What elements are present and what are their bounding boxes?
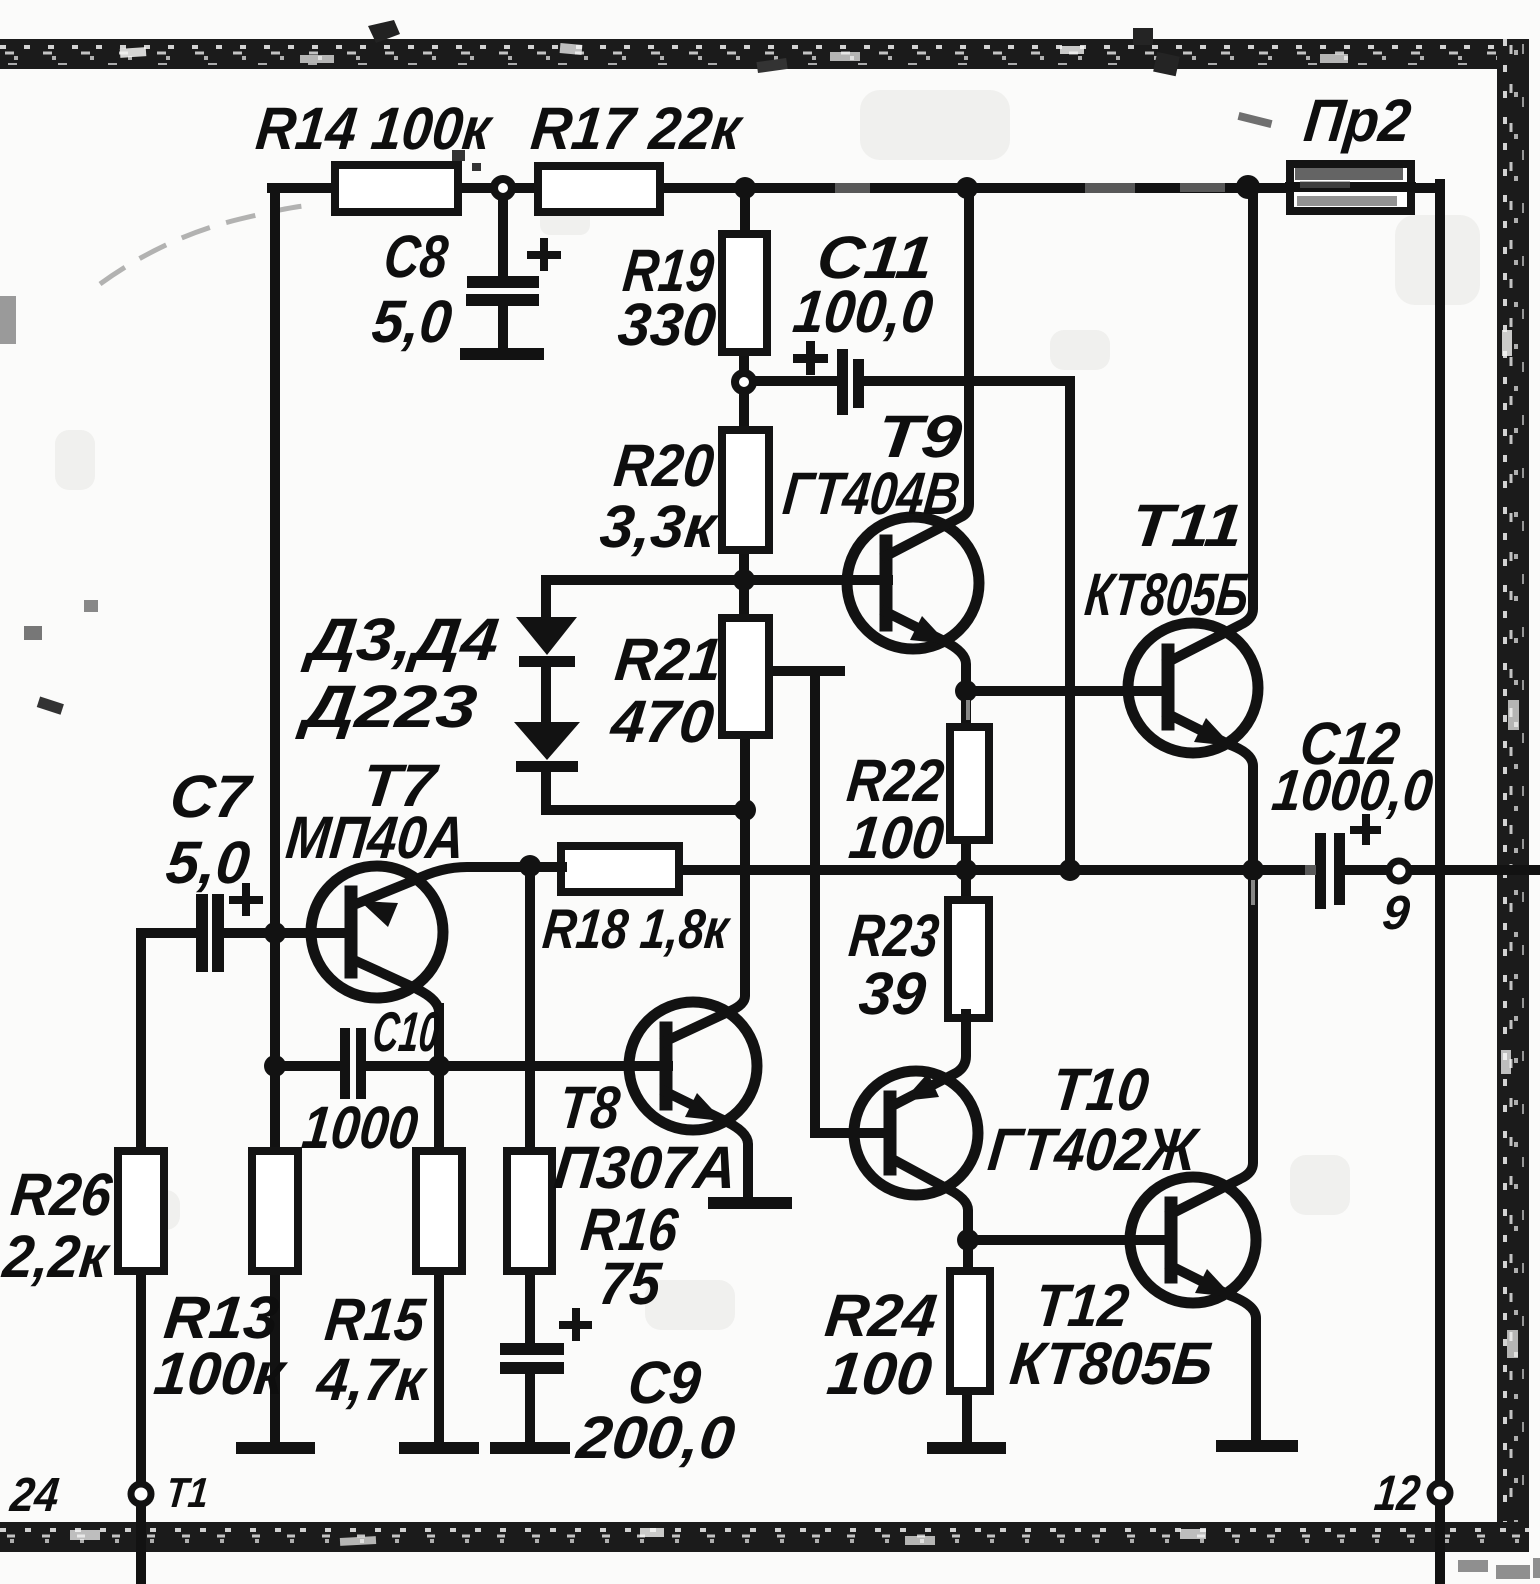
stray pencil curve top-left (100, 206, 316, 285)
transistor T11 KT805B (1128, 186, 1258, 872)
wire: T9 base node down to R21 top (739, 580, 749, 620)
capacitor C10 plates (340, 1028, 366, 1099)
wire: C11 corner down to output rail (1065, 381, 1075, 868)
junction node T7 base / C7 / feedback line (264, 922, 286, 944)
chassis bar under R13 (242, 1442, 309, 1454)
svg-text:39: 39 (856, 960, 930, 1027)
svg-text:Пр2: Пр2 (1301, 87, 1414, 154)
junction node T11 emitter / T12 collector on rail (1242, 859, 1264, 881)
svg-text:R14 100к: R14 100к (253, 95, 496, 162)
svg-text:100к: 100к (151, 1340, 291, 1407)
C8 polarity plus (527, 238, 561, 271)
resistor R20 3.3k body (722, 430, 769, 550)
wire: tap vertical down to T10 base line (810, 671, 820, 1133)
svg-text:100: 100 (846, 804, 947, 871)
junction node R14/R17/C8 (ring) (494, 179, 512, 197)
svg-text:C7: C7 (167, 763, 256, 830)
junction node T9 emitter / T11 base / R22 (955, 680, 977, 702)
wire: R19 bottom to ring node (739, 350, 749, 372)
border frame top bar (0, 39, 1529, 69)
capacitor C11 plates (837, 349, 864, 415)
svg-text:ГТ402Ж: ГТ402Ж (985, 1116, 1203, 1183)
svg-text:КТ805Б: КТ805Б (1007, 1330, 1216, 1397)
transistor T10 GT402Zh (854, 1014, 978, 1242)
svg-text:330: 330 (615, 291, 719, 358)
svg-text:24: 24 (7, 1468, 62, 1522)
resistor R24 100 body (950, 1271, 990, 1391)
wire: output rail C12 to terminal 9 (1347, 865, 1390, 875)
border frame bottom bar (0, 1522, 1529, 1552)
resistor R18 1.8k body (561, 846, 679, 892)
wire: between diodes D3 and D4 (541, 665, 551, 724)
wire: diode chain bottom to R21 bottom node (546, 805, 745, 815)
junction ring node R19/R20/C11 (735, 373, 753, 391)
transistor T7 MP40A (311, 866, 562, 1068)
transistor T12 KT805B (1130, 868, 1256, 1438)
wire: R24 bottom to chassis stub (962, 1389, 972, 1442)
wire: R21 wiper tap horizontal (768, 666, 840, 676)
wire: R13 bottom to chassis stub (270, 1269, 280, 1442)
svg-text:3,3к: 3,3к (597, 493, 722, 560)
chassis bar under T12 emitter (1222, 1440, 1292, 1452)
wire: T12 base line from T10 collector node (968, 1235, 1171, 1245)
wire: R22 top stub from T9 emitter node (961, 691, 971, 729)
svg-text:C8: C8 (381, 223, 451, 290)
wire: C7 left corner down to R26 (136, 933, 146, 1152)
svg-text:R23: R23 (846, 902, 942, 969)
svg-text:R24: R24 (822, 1282, 940, 1349)
transistor T8 P307A (629, 872, 757, 1199)
junction node R18 left / T7 emitter / R16 line (519, 855, 541, 877)
junction node R19 top (734, 177, 756, 199)
resistor R14 100k body (335, 165, 458, 212)
resistor R26 2.2k body (118, 1151, 164, 1271)
wire: R26 bottom to terminal T1 (136, 1269, 146, 1484)
scan fade on wires (300, 187, 1316, 870)
resistor R16 75 body (507, 1151, 552, 1271)
resistor R21 470 body (722, 618, 769, 735)
junction node T9 base / R20 / R21 / diodes (733, 569, 755, 591)
wire: R15 bottom to chassis stub (434, 1269, 444, 1442)
resistor R17 22k body (538, 166, 660, 212)
svg-text:1000,0: 1000,0 (1269, 758, 1436, 823)
light scan smudges (55, 90, 1480, 1330)
svg-text:Т12: Т12 (1032, 1272, 1132, 1339)
svg-text:Д223: Д223 (294, 673, 480, 740)
svg-text:R15: R15 (322, 1286, 429, 1353)
wire: C10 right lead / T8 base line (366, 1061, 668, 1071)
stray grey dash near fuse label (1238, 112, 1273, 128)
svg-text:1000: 1000 (299, 1094, 421, 1161)
svg-text:R17 22к: R17 22к (528, 95, 746, 162)
wire: T9 base node to diode chain (left) (546, 575, 744, 585)
svg-text:Т1: Т1 (164, 1469, 211, 1516)
wire: R20 bottom to T9 base node (739, 548, 749, 584)
wire: top supply rail from left corner to fuse corner (272, 183, 1437, 193)
C12 polarity plus (1350, 814, 1381, 845)
junction node R22/R23 on output rail (955, 859, 977, 881)
junction node C11 on output rail (1059, 859, 1081, 881)
capacitor C9 plates (500, 1343, 564, 1374)
chassis bar under C9 (496, 1442, 564, 1454)
junction node T11 collector at top rail (1236, 175, 1260, 199)
transistor T9 GT404V (847, 186, 979, 693)
stray marks left edge (0, 296, 98, 715)
C11 polarity plus (793, 341, 828, 375)
stray ink marks above top wire (756, 58, 787, 73)
wire: diode chain top stub (541, 580, 551, 620)
resistor R22 100 body (950, 727, 989, 840)
wire: C9 bottom to chassis stub (525, 1372, 535, 1442)
svg-text:Т11: Т11 (1128, 492, 1246, 559)
svg-text:C10: C10 (370, 1000, 443, 1063)
svg-text:100: 100 (824, 1340, 935, 1407)
wire: below D4 to corner (541, 770, 551, 810)
capacitor C12 plates (1315, 833, 1345, 909)
wire: left vertical feedback line (R14 node down to R13) (270, 188, 280, 1152)
svg-text:12: 12 (1372, 1465, 1423, 1521)
capacitor C8 top lead (498, 190, 508, 278)
svg-text:75: 75 (596, 1250, 665, 1317)
svg-text:КТ805Б: КТ805Б (1082, 561, 1252, 628)
svg-text:4,7к: 4,7к (313, 1346, 430, 1413)
junction node T10 collector / R24 / T12 base (957, 1229, 979, 1251)
stray dots near R14 (452, 150, 481, 171)
wire: T9 base lead (744, 575, 888, 585)
resistor R19 330 body (722, 234, 767, 352)
chassis bar under R24 (933, 1442, 1000, 1454)
wire: ring node to R20 top (739, 392, 749, 432)
svg-text:R26: R26 (8, 1161, 116, 1228)
stray speckles bottom-right corner (1458, 1558, 1540, 1579)
wire: C11 right segment to corner (862, 376, 1070, 386)
wire: R19 top stub (740, 188, 750, 236)
svg-text:Т8: Т8 (556, 1074, 623, 1141)
capacitor C7 plates (196, 894, 224, 972)
wire: terminal T1 stub through bottom frame (136, 1503, 146, 1584)
capacitor C8 bottom lead (498, 306, 508, 350)
resistor R15 4.7k body (416, 1151, 462, 1271)
svg-text:ГТ404В: ГТ404В (780, 460, 963, 527)
wire: R18 left lead (520, 862, 562, 872)
junction node T9 collector at top rail (956, 177, 978, 199)
svg-text:5,0: 5,0 (369, 288, 455, 355)
svg-text:5,0: 5,0 (163, 829, 253, 896)
svg-text:МП40А: МП40А (283, 804, 468, 871)
chassis bar under C8 (466, 348, 538, 360)
wire: terminal 12 stub through bottom frame (1435, 1502, 1445, 1584)
wire: T7 collector node down to R15 (434, 1008, 444, 1153)
svg-text:Д3,Д4: Д3,Д4 (299, 606, 502, 673)
wire: R23 top from rail (961, 870, 971, 902)
svg-text:R20: R20 (611, 432, 717, 499)
diode D3 (516, 617, 577, 667)
svg-text:R21: R21 (612, 626, 725, 693)
capacitor C8 plates (466, 276, 539, 306)
wire: right vertical from fuse corner down to terminal 12 (1435, 184, 1445, 1483)
wire: C7 left lead (141, 928, 196, 938)
border frame right bar (1497, 39, 1529, 1552)
wire: R18 node vertical down to R16 (525, 866, 535, 1152)
C9 polarity plus (559, 1308, 592, 1341)
svg-text:470: 470 (607, 688, 717, 755)
diode D4 (514, 722, 580, 772)
C7 polarity plus (229, 883, 263, 916)
wire: C7 right lead to T7 base (223, 928, 352, 938)
wire: output rail from terminal 9 through frame to edge (1409, 865, 1540, 875)
wire: C10 left lead from feedback line (275, 1061, 341, 1071)
wire: R24 top stub (963, 1240, 973, 1273)
chassis bar at T8 emitter (714, 1197, 786, 1209)
wire: R16 bottom to C9 (525, 1269, 535, 1344)
chassis bar under R15 (405, 1442, 473, 1454)
wire: R21 bottom down to output rail (T8 collector node) (740, 733, 750, 872)
wire: R22 bottom to rail (961, 838, 971, 870)
resistor R13 100k body (252, 1151, 298, 1271)
stray ink blob top-centre (368, 20, 400, 43)
wire: output rail from R18 to C12 (679, 865, 1316, 875)
terminal 12 (1430, 1483, 1450, 1503)
svg-text:П307А: П307А (551, 1134, 740, 1201)
svg-text:2,2к: 2,2к (0, 1223, 113, 1290)
wire: C11 branch left segment from ring node (750, 376, 839, 386)
fuse Pr2 body (1290, 164, 1411, 211)
stray ink blobs top right (1133, 28, 1180, 76)
terminal T1 (24) (131, 1484, 151, 1504)
wire: T11 base line from T9 emitter node (966, 686, 1168, 696)
svg-text:100,0: 100,0 (790, 278, 936, 345)
svg-text:Т10: Т10 (1049, 1056, 1152, 1123)
junction node T7 collector / T8 base / R15 (428, 1055, 450, 1077)
svg-text:200,0: 200,0 (573, 1404, 738, 1471)
junction node C10 on feedback line (264, 1055, 286, 1077)
resistor R23 39 body (948, 900, 989, 1018)
junction node diode chain at R21 bottom (734, 799, 756, 821)
wire: T10 base line (815, 1128, 890, 1138)
svg-text:R18 1,8к: R18 1,8к (540, 897, 734, 960)
terminal 9 (output) (1389, 861, 1409, 881)
